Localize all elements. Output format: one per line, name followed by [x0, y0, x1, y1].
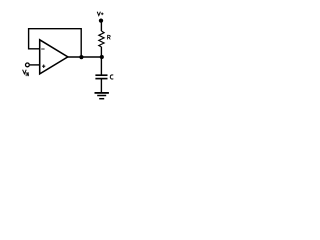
label V+: [97, 12, 103, 16]
terminal V+: [99, 18, 103, 22]
node output junction: [100, 55, 104, 59]
wire output (op-amp apex to right rail): [68, 56, 103, 58]
label VIN: [23, 70, 29, 76]
label C: [110, 75, 113, 79]
wire resistor to capacitor: [100, 47, 102, 76]
wire input (VIN terminal to non-inverting input): [30, 64, 40, 66]
wire V+ terminal to resistor: [100, 21, 102, 31]
ground: [95, 93, 109, 99]
terminal VIN: [26, 63, 30, 67]
capacitor C: [95, 75, 107, 78]
resistor R: [99, 31, 104, 47]
node feedback junction: [79, 55, 83, 59]
wire capacitor to ground: [100, 79, 102, 93]
wire feedback loop (output node up and over to inverting input): [29, 29, 82, 57]
op-amp U1: [40, 40, 68, 74]
label R: [108, 35, 111, 39]
